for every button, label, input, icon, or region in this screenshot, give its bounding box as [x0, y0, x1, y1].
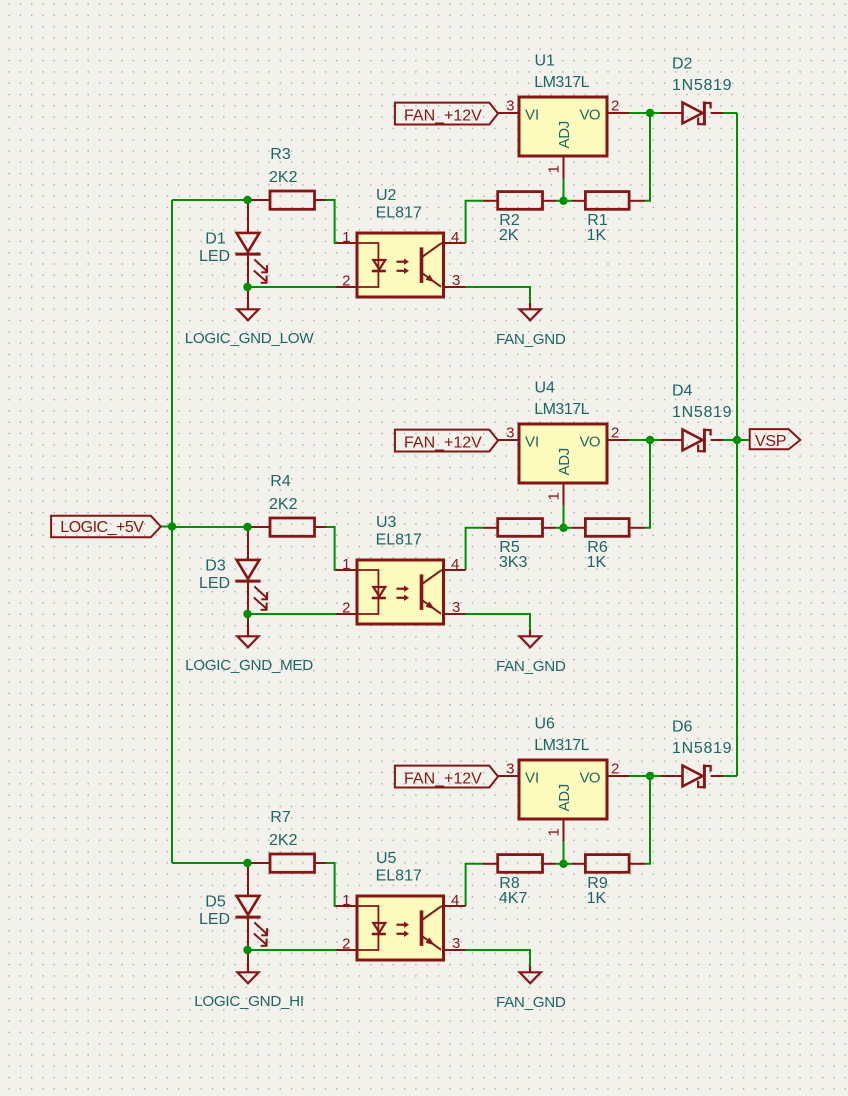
svg-text:EL817: EL817 — [376, 205, 422, 222]
svg-text:FAN_+12V: FAN_+12V — [404, 770, 482, 787]
svg-text:FAN_GND: FAN_GND — [496, 658, 566, 675]
svg-text:VI: VI — [525, 434, 539, 451]
svg-text:D4: D4 — [672, 383, 693, 400]
svg-text:2K: 2K — [499, 227, 519, 244]
svg-text:FAN_+12V: FAN_+12V — [404, 107, 482, 124]
svg-text:2: 2 — [611, 98, 619, 115]
svg-text:LM317L: LM317L — [534, 401, 589, 418]
svg-text:VSP: VSP — [755, 433, 786, 450]
svg-text:U1: U1 — [535, 53, 556, 70]
svg-text:D1: D1 — [205, 231, 226, 248]
svg-text:4: 4 — [451, 892, 459, 909]
svg-text:U4: U4 — [535, 380, 556, 397]
svg-text:1K: 1K — [587, 227, 607, 244]
svg-text:EL817: EL817 — [376, 868, 422, 885]
svg-text:2K2: 2K2 — [269, 832, 298, 849]
svg-text:3: 3 — [452, 935, 460, 952]
svg-text:FAN_+12V: FAN_+12V — [404, 434, 482, 451]
svg-text:D5: D5 — [205, 894, 226, 911]
svg-text:EL817: EL817 — [376, 532, 422, 549]
svg-text:LOGIC_GND_LOW: LOGIC_GND_LOW — [185, 330, 315, 347]
svg-text:LOGIC_+5V: LOGIC_+5V — [60, 519, 144, 536]
svg-text:3: 3 — [452, 272, 460, 289]
svg-text:1N5819: 1N5819 — [672, 740, 732, 757]
svg-text:2: 2 — [342, 600, 350, 617]
svg-text:1: 1 — [342, 892, 350, 909]
svg-text:2K2: 2K2 — [269, 496, 298, 513]
svg-text:1: 1 — [342, 556, 350, 573]
svg-text:LOGIC_GND_MED: LOGIC_GND_MED — [185, 657, 313, 674]
svg-text:VO: VO — [580, 770, 600, 787]
svg-text:ADJ: ADJ — [556, 121, 573, 148]
svg-text:4K7: 4K7 — [499, 890, 528, 907]
svg-text:D6: D6 — [672, 719, 693, 736]
svg-text:U3: U3 — [376, 514, 397, 531]
svg-text:LED: LED — [199, 911, 230, 928]
svg-text:1: 1 — [546, 828, 563, 836]
svg-text:1: 1 — [342, 229, 350, 246]
svg-text:3: 3 — [506, 761, 514, 778]
svg-text:2: 2 — [342, 936, 350, 953]
svg-text:LED: LED — [199, 575, 230, 592]
svg-text:LOGIC_GND_HI: LOGIC_GND_HI — [194, 993, 304, 1010]
svg-text:1K: 1K — [587, 554, 607, 571]
svg-text:U6: U6 — [535, 716, 556, 733]
svg-text:4: 4 — [451, 229, 459, 246]
svg-text:R3: R3 — [270, 146, 291, 163]
svg-text:1N5819: 1N5819 — [672, 77, 732, 94]
svg-text:D2: D2 — [672, 56, 693, 73]
svg-text:VO: VO — [580, 434, 600, 451]
svg-text:3K3: 3K3 — [499, 554, 528, 571]
svg-text:LM317L: LM317L — [534, 737, 589, 754]
svg-text:VI: VI — [525, 107, 539, 124]
svg-text:3: 3 — [452, 599, 460, 616]
svg-text:U5: U5 — [376, 850, 397, 867]
svg-text:ADJ: ADJ — [556, 784, 573, 811]
svg-text:D3: D3 — [205, 558, 226, 575]
svg-text:ADJ: ADJ — [556, 448, 573, 475]
svg-text:2: 2 — [611, 425, 619, 442]
svg-text:VO: VO — [580, 107, 600, 124]
svg-text:1K: 1K — [587, 890, 607, 907]
svg-text:FAN_GND: FAN_GND — [496, 331, 566, 348]
svg-text:3: 3 — [506, 98, 514, 115]
svg-text:2: 2 — [342, 273, 350, 290]
svg-text:FAN_GND: FAN_GND — [496, 994, 566, 1011]
svg-text:VI: VI — [525, 770, 539, 787]
svg-text:2K2: 2K2 — [269, 169, 298, 186]
svg-text:LED: LED — [199, 248, 230, 265]
svg-text:R4: R4 — [270, 473, 291, 490]
svg-text:4: 4 — [451, 556, 459, 573]
svg-text:LM317L: LM317L — [534, 74, 589, 91]
svg-text:3: 3 — [506, 425, 514, 442]
svg-text:R7: R7 — [270, 809, 291, 826]
svg-text:1: 1 — [546, 492, 563, 500]
svg-text:1: 1 — [546, 165, 563, 173]
svg-text:U2: U2 — [376, 187, 397, 204]
svg-text:2: 2 — [611, 761, 619, 778]
svg-text:1N5819: 1N5819 — [672, 404, 732, 421]
